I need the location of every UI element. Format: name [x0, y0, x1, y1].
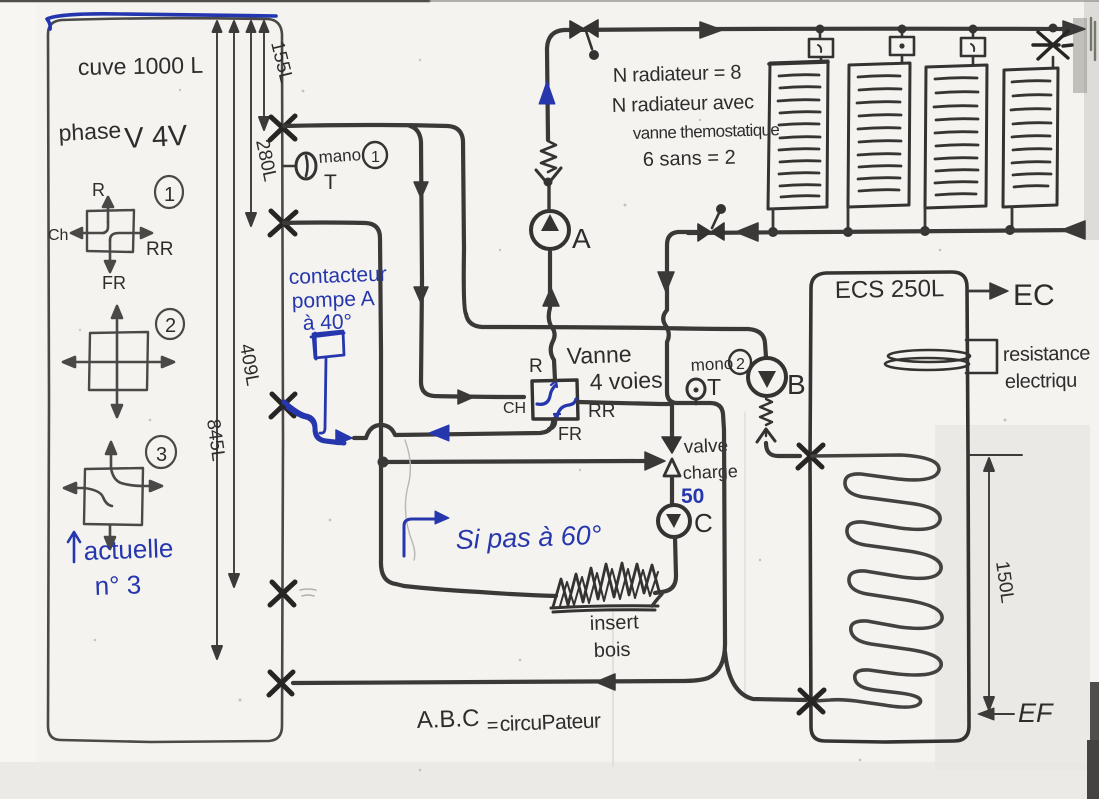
node radiator 1 tap [816, 25, 825, 34]
arrowhead top pipe right end [1063, 21, 1085, 37]
paper speckles [79, 59, 1007, 772]
svg-text:B: B [787, 369, 806, 400]
svg-text:circuPateur: circuPateur [499, 709, 601, 736]
svg-text:=: = [486, 715, 498, 737]
pencil smudge near lower tank X [300, 589, 316, 596]
paper crease left of ECS [744, 412, 746, 700]
wire U-bridge top [676, 403, 724, 430]
blue contactor box [311, 331, 344, 359]
valve star above radiator 4 [1033, 31, 1072, 59]
tank top blue overdraw [47, 14, 276, 29]
flow arrow right into valve charge [645, 452, 665, 470]
svg-text:pompe A: pompe A [291, 287, 375, 313]
blue flow arrow up on riser [539, 81, 555, 104]
flow arrow left on tank return [596, 674, 615, 690]
X valve tank second port [270, 211, 296, 235]
radiator 2 bottom stub [847, 207, 850, 231]
wire RR port to junction [578, 402, 672, 404]
tank cuve 1000L outline [48, 18, 283, 742]
blue arrowhead into pipe [336, 430, 352, 444]
wire junction down to valve charge [670, 403, 674, 436]
blue note si pas a 60 [404, 519, 438, 556]
circle 1 [155, 176, 183, 208]
valve charge check valve [662, 437, 681, 453]
valve diagram 1 ports and arrows [71, 197, 152, 272]
svg-text:valve: valve [683, 435, 728, 458]
vanne internal blue arcs [537, 385, 556, 404]
wire U-bridge right drop [708, 430, 725, 678]
svg-text:resistance: resistance [1003, 342, 1091, 366]
radiator 1 [768, 61, 828, 209]
flow arrow right on top pipe [700, 22, 722, 38]
valve diagram 2 square [89, 332, 148, 390]
radiator 1 thermo valve [809, 31, 833, 62]
wire insert supply horizontal [404, 586, 556, 596]
svg-text:A.B.C: A.B.C [416, 705, 480, 734]
radiator 1 bottom stub [772, 209, 775, 231]
wire pump B to coil inlet [766, 443, 800, 456]
radiator 3 bottom stub [924, 208, 927, 231]
blue pipe from tank X to FR pipe [284, 402, 344, 443]
pump B [748, 358, 786, 396]
faint squiggle below junction [405, 440, 415, 560]
ECS tank outline [810, 272, 969, 742]
top supply pipe [564, 29, 1076, 30]
ECS heating coil [812, 455, 942, 707]
X valve ECS coil outlet [799, 690, 824, 713]
X valve tank top port [270, 116, 295, 140]
insert bois heat exchanger zigzag [553, 563, 659, 607]
pipe tank-top to ECS loop (hot supply) [284, 125, 660, 328]
svg-text:EF: EF [1018, 698, 1054, 728]
level line 409L [229, 21, 239, 587]
level line 280L [246, 21, 256, 226]
wire FR port [549, 419, 555, 429]
blue note actuelle n3 [68, 532, 80, 562]
pump A [531, 211, 569, 249]
wire charge branch horizontal [383, 461, 645, 462]
svg-text:Si pas à 60°: Si pas à 60° [455, 520, 602, 555]
radiator return pipe [688, 230, 1083, 233]
wire riser to top pipe [547, 30, 564, 140]
arrowhead left at return right end [1062, 221, 1085, 239]
circle 3 [146, 436, 176, 468]
radiator 3 [925, 65, 987, 208]
svg-text:150L: 150L [991, 560, 1018, 605]
flow arrow left on return pipe [736, 223, 758, 241]
valve on top pipe [570, 20, 598, 38]
wire branch to ECS coil bottom [725, 652, 806, 700]
node radiator 3 tap [969, 25, 978, 34]
X valve tank middle port [271, 394, 295, 417]
svg-text:50: 50 [681, 485, 704, 508]
X valve tank bottom port [269, 672, 293, 695]
svg-text:insert: insert [589, 611, 639, 635]
blue flow arrow left on FR pipe [429, 425, 449, 441]
svg-text:bois: bois [593, 639, 630, 662]
svg-text:contacteur: contacteur [288, 263, 387, 289]
radiator 2 [848, 63, 910, 207]
radiator 3 thermo valve [961, 31, 985, 64]
valve diagram 3 ports arrows [64, 442, 162, 549]
radiator 2 thermo valve [890, 31, 914, 63]
svg-text:EC: EC [1013, 279, 1055, 312]
scan top edge [0, 0, 430, 2]
node radiator 4 tap [1049, 24, 1058, 33]
wire tank return bottom [293, 678, 708, 683]
wire vanne R riser to pump A [549, 252, 555, 380]
flow arrow right before CH port [458, 390, 474, 404]
pipe tank second port down to insert loop [284, 223, 404, 587]
resistance electrique element [888, 350, 970, 362]
flow arrow up on R riser [543, 288, 559, 306]
valve diagram 1 square [87, 210, 134, 252]
wire return down to RR junction [663, 232, 698, 403]
wire continuation to pump B corner [660, 328, 766, 357]
X valve tank lower port [270, 582, 295, 605]
dimension 150L [968, 455, 1022, 714]
flow arrow down on return drop [658, 272, 674, 292]
svg-text:ECS 250L: ECS 250L [835, 275, 945, 304]
level line 155L [259, 21, 269, 130]
wire pump C down to insert [655, 537, 676, 593]
svg-text:electriqu: electriqu [1005, 370, 1077, 393]
label EF [978, 708, 994, 720]
spring on pump A riser [541, 141, 556, 172]
vanne 4 voies square [532, 380, 578, 419]
node radiator 2 tap [898, 25, 907, 34]
wire pump A up [547, 186, 550, 211]
level line 845L [212, 21, 222, 659]
radiator 4 bottom stub [1011, 207, 1014, 228]
valve on return pipe [698, 223, 724, 241]
blue wire from contactor [320, 358, 326, 433]
valve diagram 2 cross arrows [63, 306, 174, 417]
EC outlet arrow [968, 290, 996, 293]
radiator 4 [1003, 68, 1058, 207]
scan mark top right [1091, 18, 1095, 60]
mano 1 gauge [283, 165, 296, 167]
branch pipe to vanne CH [410, 126, 524, 397]
spring check under pump B [760, 399, 772, 425]
T gauge mono 2 [695, 399, 698, 404]
circle 2 [156, 309, 184, 339]
check valve under spring [536, 168, 561, 184]
pump C [658, 505, 690, 537]
svg-text:charge: charge [682, 461, 738, 483]
svg-text:C: C [694, 508, 713, 538]
wire valve charge to pump C [670, 477, 674, 505]
flow arrow down on CH branch lower [414, 287, 428, 303]
junction dot charge branch [378, 457, 389, 468]
X valve ECS coil inlet [798, 445, 823, 468]
wire FR horizontal with hump over vertical [354, 419, 554, 438]
valve diagram 3 square [84, 468, 143, 525]
flow arrow down on CH branch [414, 182, 428, 198]
